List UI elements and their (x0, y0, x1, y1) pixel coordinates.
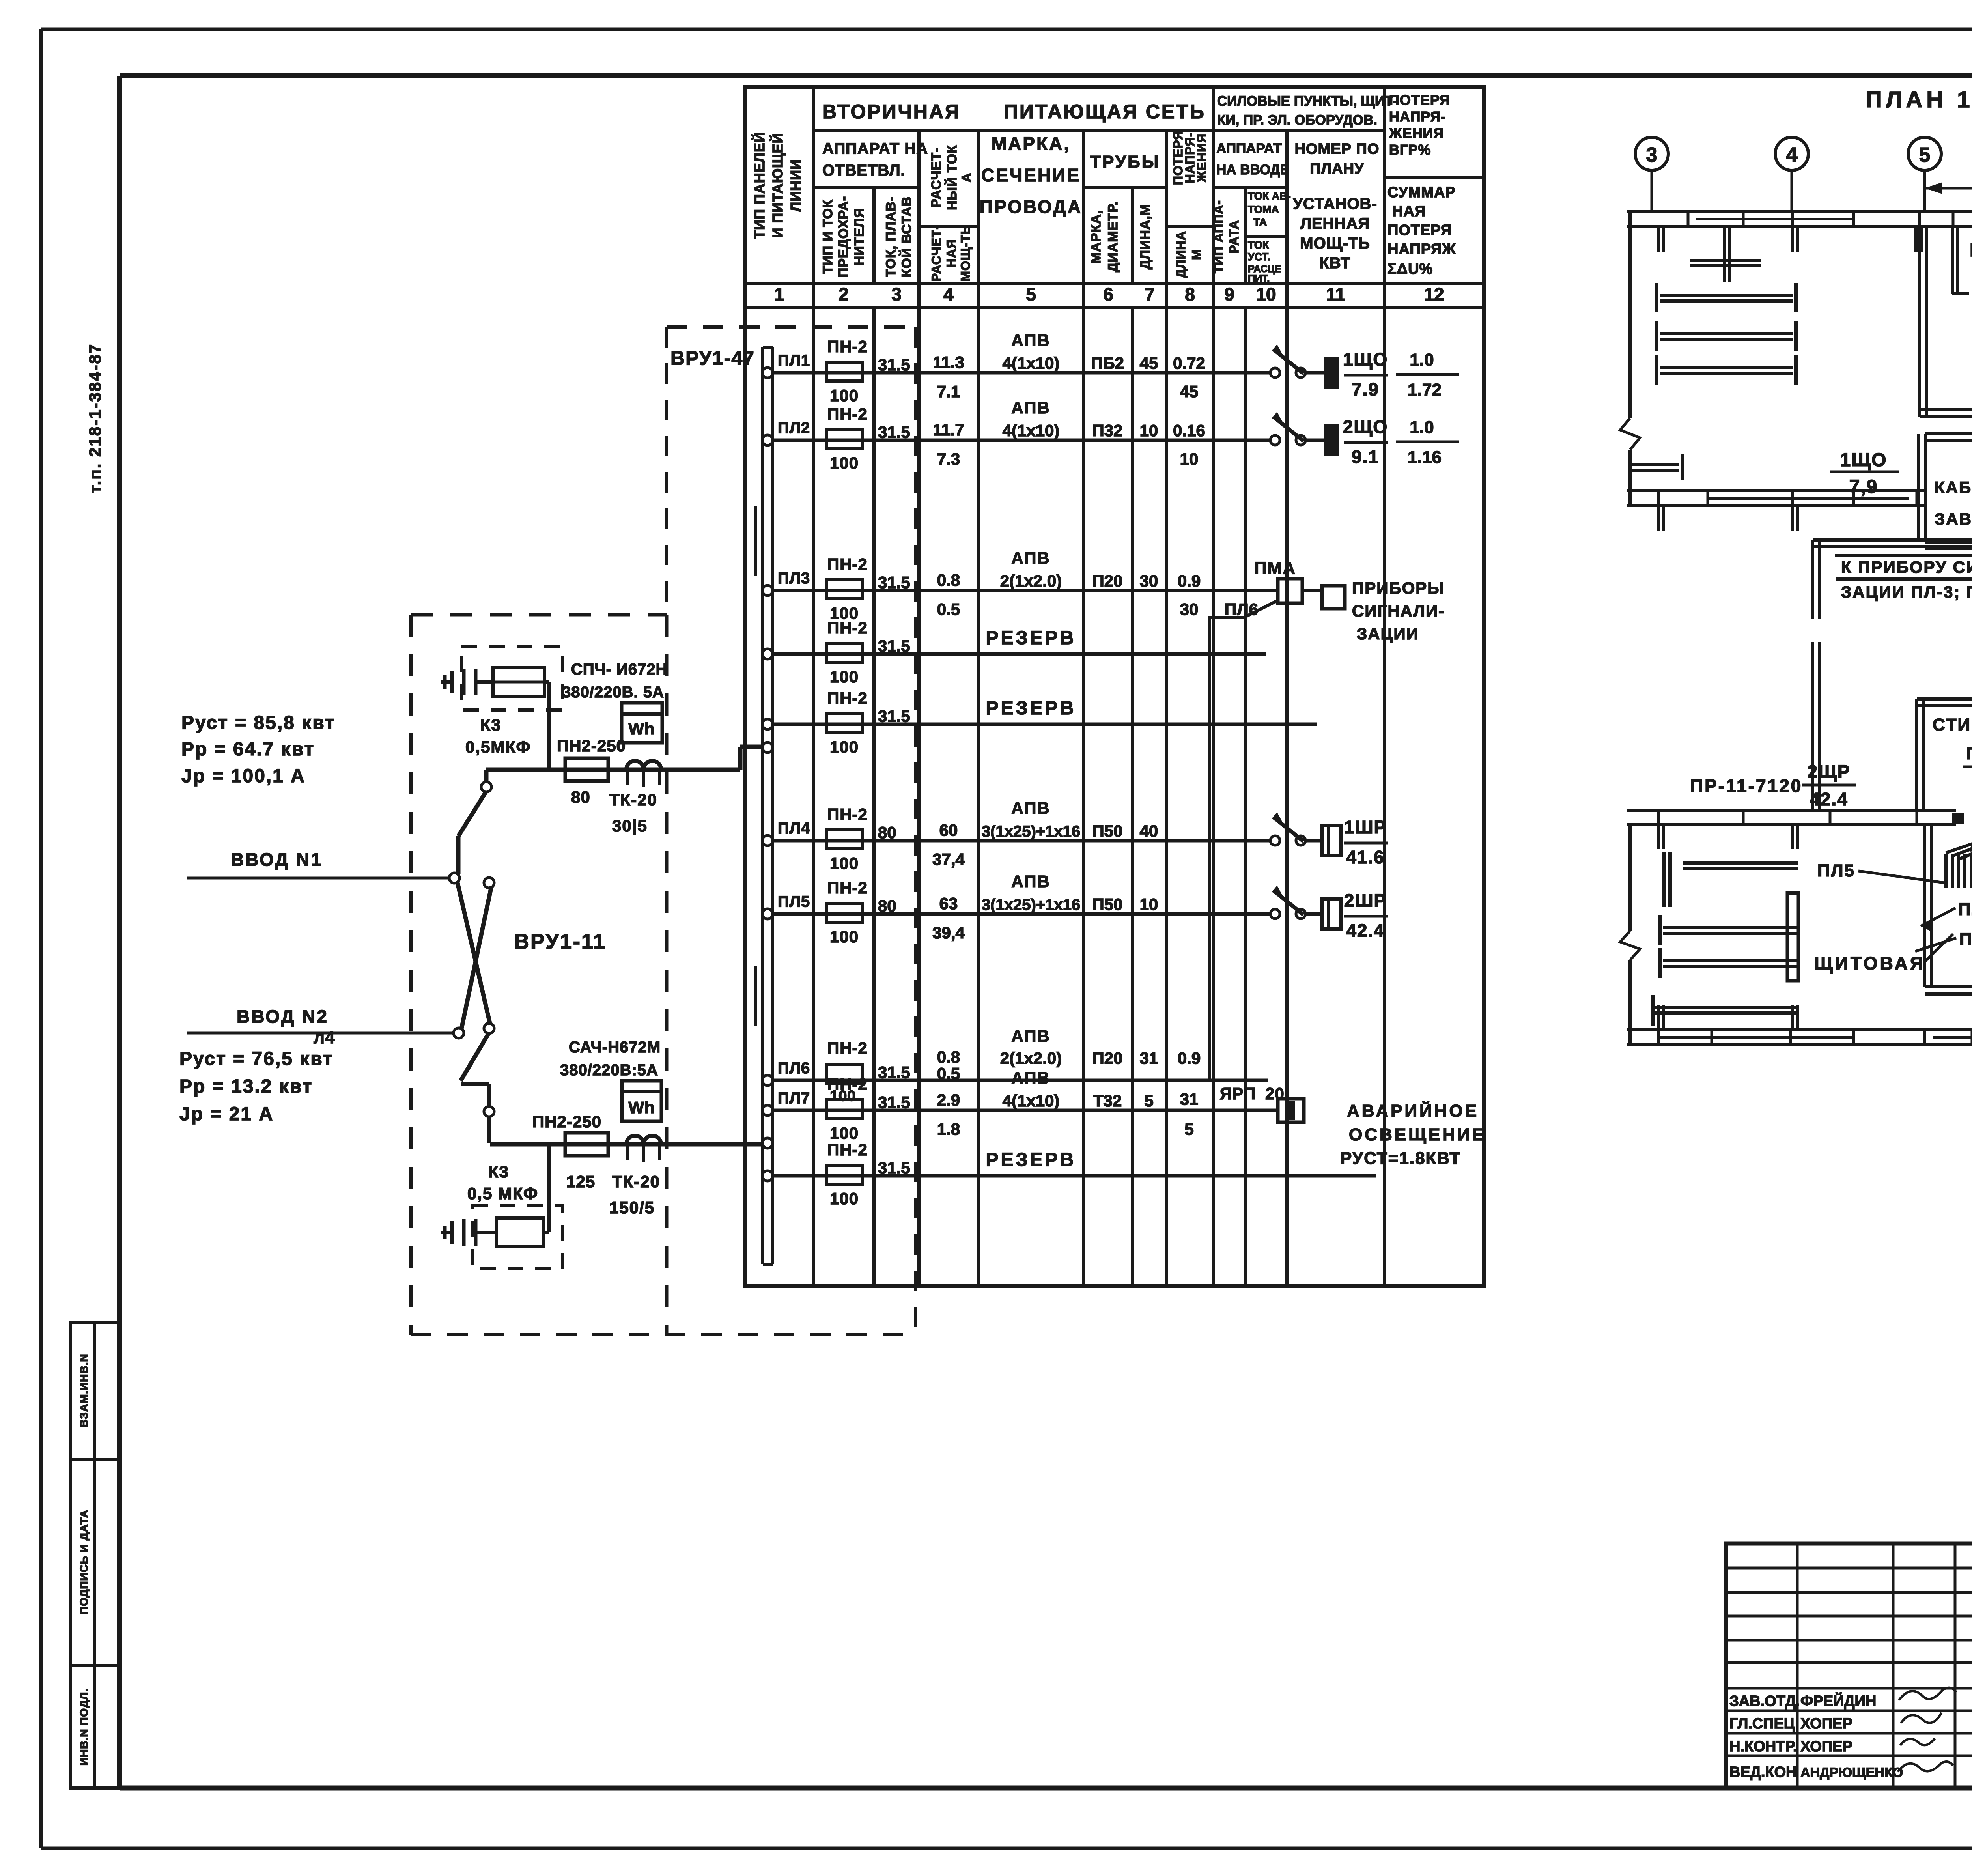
svg-text:ЛИНИИ: ЛИНИИ (788, 159, 804, 212)
label ПЛ3:ПЛ6 with leader (1963, 744, 1972, 767)
svg-text:ГЛ.СПЕЦ: ГЛ.СПЕЦ (1729, 1715, 1795, 1732)
svg-text:МОЩ-ТЬ: МОЩ-ТЬ (958, 225, 973, 281)
svg-text:4(1х10): 4(1х10) (1003, 1091, 1060, 1110)
svg-text:37,4: 37,4 (932, 850, 965, 869)
label 1ШР/41.6 (1344, 817, 1388, 867)
svg-text:Н.КОНТР.: Н.КОНТР. (1729, 1738, 1797, 1755)
wall bottom wing bottom band (1627, 1030, 1972, 1045)
svg-text:ДИАМЕТР.: ДИАМЕТР. (1106, 201, 1120, 272)
svg-text:100: 100 (830, 1124, 859, 1142)
svg-text:ПН-2: ПН-2 (827, 1075, 868, 1093)
svg-text:1ШР: 1ШР (1344, 817, 1387, 837)
svg-text:31.5: 31.5 (878, 707, 910, 725)
svg-text:3: 3 (891, 284, 902, 305)
label К3 0,5МКФ (upper) (465, 716, 531, 756)
svg-text:МАРКА,: МАРКА, (992, 133, 1070, 154)
svg-text:Т32: Т32 (1093, 1091, 1122, 1110)
node tap ПЛ7 on bus (762, 1105, 773, 1116)
svg-text:100: 100 (830, 738, 859, 756)
svg-text:ПЛ5: ПЛ5 (1817, 861, 1855, 880)
svg-text:100: 100 (830, 927, 859, 946)
wall top wing left edge with break (1620, 211, 1640, 506)
svg-text:ЯРП: ЯРП (1220, 1084, 1256, 1103)
resistor (lower K3) (496, 1144, 549, 1246)
svg-text:60: 60 (939, 821, 958, 839)
svg-text:ПЛ3:ПЛ6: ПЛ3:ПЛ6 (1966, 744, 1972, 763)
svg-text:ПЛ4: ПЛ4 (1958, 900, 1972, 919)
label ЩИТОВАЯ with leader (1814, 934, 1953, 974)
label АВАРИЙНОЕ ОСВЕЩЕНИЕ (1340, 1101, 1486, 1168)
svg-text:100: 100 (830, 454, 859, 472)
svg-text:АПВ: АПВ (1011, 331, 1050, 349)
svg-text:НОМЕР ПО: НОМЕР ПО (1295, 141, 1380, 157)
svg-text:ПРЕДОХРА-: ПРЕДОХРА- (836, 196, 851, 277)
header: ТРУБЫ (1090, 152, 1160, 172)
svg-text:т.п. 218-1-384-87: т.п. 218-1-384-87 (86, 343, 104, 493)
svg-text:ТОК, ПЛАВ-: ТОК, ПЛАВ- (883, 196, 898, 277)
wire interlock ПМА to ПЛ6 (1210, 600, 1278, 1080)
svg-text:7.3: 7.3 (937, 450, 960, 468)
svg-text:3(1х25)+1х16: 3(1х25)+1х16 (982, 823, 1080, 840)
wire feeder ПЛ1 (773, 371, 1271, 375)
switch QS (ПЛ1) (1270, 344, 1324, 377)
node label ПЛ3 (778, 570, 810, 587)
svg-text:ТК-20: ТК-20 (609, 790, 657, 809)
node label ПЛ4 (778, 820, 810, 837)
svg-text:НА ВВОДЕ: НА ВВОДЕ (1216, 162, 1289, 178)
svg-text:100: 100 (830, 1189, 859, 1208)
svg-text:ПН2-250: ПН2-250 (557, 736, 626, 755)
wire feeder ПЛ7 (773, 1109, 1278, 1112)
svg-text:10: 10 (1140, 895, 1158, 914)
svg-text:КУХНЯ: КУХНЯ (1970, 240, 1972, 261)
svg-text:ПЛАН 1 ЭТАЖА М 1:200: ПЛАН 1 ЭТАЖА М 1:200 (1866, 87, 1972, 112)
svg-text:СИГНАЛИ-: СИГНАЛИ- (1352, 602, 1445, 620)
svg-text:ДЛИНА,М: ДЛИНА,М (1138, 204, 1153, 269)
wall electrical room ЩИТОВАЯ (1925, 824, 1972, 994)
label 2ЩО/9.1 (1343, 417, 1388, 467)
svg-text:ПЛ2: ПЛ2 (778, 419, 810, 437)
fuse ПН2-250 125А (lower) (532, 1112, 608, 1191)
value труба П50 10 (ПЛ5) (1092, 895, 1158, 914)
svg-text:42.4: 42.4 (1810, 789, 1848, 809)
fuse ПН-2 100А (резерв) (827, 1140, 868, 1208)
svg-text:ТОК: ТОК (1248, 239, 1269, 251)
switch QS (ПЛ5) (1270, 886, 1324, 919)
svg-text:10: 10 (1256, 284, 1276, 305)
svg-text:5: 5 (1919, 144, 1931, 166)
contactor ПМА (ПЛ3) (1254, 559, 1322, 603)
svg-text:ПЛ5: ПЛ5 (778, 893, 810, 910)
wall bottom wing left edge with break (1620, 824, 1640, 1045)
svg-text:11.7: 11.7 (933, 420, 964, 439)
enclosure ВРУ1-11 dashed box (411, 615, 667, 1335)
svg-text:Руст = 76,5 квт: Руст = 76,5 квт (179, 1048, 334, 1069)
bus bar panel ВРУ1-47 (756, 347, 773, 1264)
svg-text:11: 11 (1326, 284, 1346, 305)
node axis 3 (1635, 137, 1668, 211)
value расчетный ток 11.7/7.3 (ПЛ2) (933, 420, 964, 468)
svg-text:Wh: Wh (628, 719, 655, 738)
fuse ПН-2 100А (ПЛ2) (827, 405, 868, 472)
label load summary input 1 (181, 712, 336, 787)
svg-text:ΣΔU%: ΣΔU% (1387, 261, 1433, 277)
svg-text:РУСТ=1.8КВТ: РУСТ=1.8КВТ (1340, 1149, 1461, 1168)
svg-text:ТА: ТА (1253, 216, 1267, 228)
left margin stamp table (70, 1322, 120, 1788)
svg-text:ЛЕННАЯ: ЛЕННАЯ (1300, 215, 1370, 232)
value марка провода АПВ 2(1х2.0) (ПЛ6) (1000, 1027, 1062, 1067)
svg-text:ПН-2: ПН-2 (827, 805, 868, 824)
svg-text:ПЛ6: ПЛ6 (778, 1059, 810, 1077)
svg-text:0.5: 0.5 (937, 600, 960, 618)
svg-text:ТИП ПАНЕЛЕЙ: ТИП ПАНЕЛЕЙ (751, 132, 768, 239)
svg-text:ВРУ1-47: ВРУ1-47 (670, 347, 755, 369)
svg-text:45: 45 (1180, 382, 1199, 401)
svg-text:ПЛ1: ПЛ1 (1959, 930, 1972, 949)
node tap ПЛ3 on bus (762, 585, 773, 596)
svg-text:НАЯ: НАЯ (944, 239, 958, 267)
fuse ПН-2 100А (ПЛ5) (827, 878, 868, 946)
svg-text:ТК-20: ТК-20 (612, 1172, 660, 1191)
current transformer ТК-20 30/5 (upper) (609, 761, 661, 835)
svg-text:6: 6 (1103, 284, 1113, 305)
node tap ПЛ2 on bus (762, 435, 773, 445)
value плавкая вставка 31.5 (резерв) (878, 707, 910, 725)
header col 7 rotated (1138, 204, 1153, 269)
svg-text:1ЩО: 1ЩО (1840, 450, 1887, 471)
svg-text:К3: К3 (480, 716, 501, 734)
label ПЛ5 with leader (1817, 861, 1944, 883)
svg-text:ПР-11-7120: ПР-11-7120 (1690, 775, 1802, 796)
wall partitions bottom wing left room (1653, 824, 1798, 1030)
fuse ПН-2 100А (ПЛ6) (827, 1039, 868, 1104)
panel marker (black) at 2ЩР wall (1952, 813, 1964, 824)
svg-text:31.5: 31.5 (878, 1063, 910, 1082)
label ВРУ1-11 (514, 930, 606, 953)
svg-text:39,4: 39,4 (932, 923, 965, 942)
wire riser lower (to fuse line 2) (461, 1033, 494, 1143)
svg-text:КИ, ПР. ЭЛ. ОБОРУДОВ.: КИ, ПР. ЭЛ. ОБОРУДОВ. (1217, 112, 1377, 128)
svg-text:40: 40 (1140, 822, 1158, 840)
wire feeder ПЛ6 (773, 1079, 1268, 1082)
svg-text:ОСВЕЩЕНИЕ: ОСВЕЩЕНИЕ (1349, 1125, 1486, 1144)
label ПЛ4 with leader (1921, 900, 1972, 931)
label КУХНЯ (1970, 240, 1972, 261)
svg-text:100: 100 (830, 667, 859, 686)
header: АППАРАТ НА ВВОДЕ (1216, 141, 1289, 178)
svg-text:10: 10 (1140, 421, 1158, 440)
svg-text:ИНВ.N ПОДЛ.: ИНВ.N ПОДЛ. (78, 1688, 90, 1766)
svg-text:П20: П20 (1092, 572, 1123, 590)
svg-text:125: 125 (566, 1172, 595, 1191)
svg-text:100: 100 (830, 386, 859, 405)
capacitor K3 0,5МКФ (lower) (472, 1205, 563, 1269)
svg-text:МАРКА,: МАРКА, (1089, 210, 1104, 263)
value расчетный ток 2.9/1.8 (ПЛ7) (937, 1091, 960, 1138)
switch QS (ПЛ4) (1270, 812, 1324, 845)
svg-text:КВТ: КВТ (1319, 254, 1350, 272)
wall partitions top wing left room (1630, 227, 1921, 531)
svg-text:АПВ: АПВ (1011, 799, 1050, 817)
svg-text:9: 9 (1224, 284, 1234, 305)
switch changeover X (crossed blades) (458, 878, 494, 1033)
title block revision table (1726, 1543, 1972, 1788)
svg-text:31.5: 31.5 (878, 423, 910, 441)
value потеря напряжения 1.0/1.16 (ПЛ2) (1396, 418, 1459, 467)
svg-text:ТИП АППА-: ТИП АППА- (1211, 200, 1225, 273)
wire feeder ПЛ3 (773, 589, 1278, 592)
header: АППАРАТ НА ОТВЕТВЛ. (822, 140, 928, 179)
wire feeder резерв (773, 1174, 1376, 1178)
node label ПЛ5 (778, 893, 810, 910)
svg-text:3: 3 (1646, 144, 1658, 166)
svg-text:ОТВЕТВЛ.: ОТВЕТВЛ. (822, 162, 906, 179)
svg-text:7.9: 7.9 (1352, 379, 1379, 400)
fuse ПН-2 100А (резерв) (827, 618, 868, 686)
title block frame (1726, 1543, 1972, 1788)
label РЕЗЕРВ (986, 628, 1076, 648)
header col 10 (1248, 190, 1291, 284)
value расчетный ток 11.3/7.1 (ПЛ1) (933, 353, 964, 401)
svg-text:30: 30 (1140, 572, 1158, 590)
svg-text:П32: П32 (1092, 421, 1123, 440)
node tap резерв on bus (762, 1171, 773, 1181)
header col 8 rotated (1171, 131, 1209, 278)
svg-text:ЖЕНИЯ: ЖЕНИЯ (1195, 133, 1209, 183)
value марка провода АПВ 4(1х10) (ПЛ1) (1003, 331, 1060, 372)
svg-text:31.5: 31.5 (878, 637, 910, 655)
svg-text:ФРЕЙДИН: ФРЕЙДИН (1800, 1692, 1876, 1710)
svg-text:12: 12 (1424, 284, 1444, 305)
label КАБИНЕТ-ЗАВЕДУЮЩ (1935, 478, 1972, 528)
svg-text:П20: П20 (1092, 1049, 1123, 1067)
header col 1 rotated (751, 132, 804, 239)
dimension 7200 between axes 5 and 6 (1925, 163, 1972, 194)
svg-text:САЧ-Н672М: САЧ-Н672М (569, 1039, 661, 1056)
node tap резерв on bus (762, 719, 773, 729)
header col 5: МАРКА СЕЧЕНИЕ ПРОВОДА (980, 133, 1082, 217)
svg-text:2.9: 2.9 (937, 1091, 960, 1109)
svg-text:ХОПЕР: ХОПЕР (1800, 1738, 1852, 1755)
svg-text:ПИТАЮЩАЯ СЕТЬ: ПИТАЮЩАЯ СЕТЬ (1004, 101, 1206, 123)
feeder table outer frame (745, 87, 1484, 1286)
fuse ПН-2 100А (ПЛ7) (827, 1075, 868, 1142)
svg-text:1.72: 1.72 (1408, 380, 1442, 400)
wall top wing bottom band left (1627, 491, 1925, 506)
panel 2ЩО (lighting board) (1324, 424, 1339, 456)
label 2ШР/42.4 (1344, 890, 1388, 941)
svg-text:31: 31 (1140, 1049, 1158, 1067)
svg-text:2ЩО: 2ЩО (1343, 417, 1388, 437)
label К3 0,5МКФ (lower) (467, 1162, 538, 1203)
wire upper feed line (486, 747, 762, 770)
svg-text:Рр = 13.2 квт: Рр = 13.2 квт (179, 1076, 313, 1097)
fuse ПН-2 100А (ПЛ4) (827, 805, 868, 873)
svg-text:АПВ: АПВ (1011, 1069, 1050, 1087)
svg-text:ВВОД N1: ВВОД N1 (231, 849, 323, 870)
svg-text:10: 10 (1180, 450, 1199, 468)
svg-text:П50: П50 (1092, 822, 1123, 840)
svg-text:М: М (1190, 249, 1204, 260)
svg-text:2ЩР: 2ЩР (1807, 761, 1850, 782)
svg-text:УСТАНОВ-: УСТАНОВ- (1293, 195, 1377, 213)
node label ПЛ6 (778, 1059, 810, 1077)
svg-text:42.4: 42.4 (1346, 920, 1385, 941)
svg-text:31.5: 31.5 (878, 355, 910, 374)
node feed tap 1 (from ВРУ1-11 upper) (762, 742, 773, 753)
svg-text:0,5 МКФ: 0,5 МКФ (467, 1184, 538, 1203)
header col 3 rotated (883, 196, 914, 277)
value труба Т32 5 (ПЛ7) (1093, 1091, 1194, 1138)
svg-text:СИЛОВЫЕ ПУНКТЫ, ЩИТ-: СИЛОВЫЕ ПУНКТЫ, ЩИТ- (1217, 93, 1398, 109)
value плавкая вставка 31.5 (ПЛ1) (878, 355, 910, 374)
svg-text:0.72: 0.72 (1173, 354, 1205, 372)
svg-text:ПН-2: ПН-2 (827, 1140, 868, 1159)
svg-text:4: 4 (1786, 144, 1798, 166)
svg-text:2: 2 (838, 284, 849, 305)
svg-text:ПОДПИСЬ И ДАТА: ПОДПИСЬ И ДАТА (78, 1510, 90, 1614)
svg-text:31.5: 31.5 (878, 573, 910, 592)
svg-text:4(1х10): 4(1х10) (1003, 421, 1060, 440)
node label ПЛ2 (778, 419, 810, 437)
label ВРУ1-47 (670, 347, 755, 369)
capacitor K3 0,5МКФ (upper) with discharge resistor (461, 647, 563, 710)
svg-text:0.9: 0.9 (1178, 572, 1201, 590)
svg-text:31.5: 31.5 (878, 1093, 910, 1112)
svg-text:А: А (959, 172, 974, 183)
svg-text:31: 31 (1180, 1090, 1199, 1108)
fuse ПН-2 100А (резерв) (827, 689, 868, 756)
svg-text:ПН-2: ПН-2 (827, 405, 868, 423)
svg-text:41.6: 41.6 (1346, 847, 1385, 867)
value марка провода АПВ 4(1х10) (ПЛ2) (1003, 398, 1060, 440)
svg-text:Jр = 21 А: Jр = 21 А (179, 1104, 274, 1125)
svg-text:80: 80 (878, 823, 896, 842)
title block signatures (1898, 1688, 1956, 1772)
label 1ЩО/7.9 (1343, 349, 1388, 400)
svg-text:ТОМА: ТОМА (1248, 204, 1279, 215)
node label ПЛ7 (778, 1089, 810, 1107)
node tap ПЛ4 on bus (762, 835, 773, 846)
svg-text:УСТ.: УСТ. (1248, 251, 1270, 263)
wire riser upper (to fuse line 1) (458, 770, 491, 874)
value плавкая вставка 31.5 (ПЛ6) (878, 1063, 910, 1082)
svg-text:ВЕД.КОН: ВЕД.КОН (1729, 1764, 1797, 1781)
svg-text:2(1х2.0): 2(1х2.0) (1000, 1049, 1062, 1067)
panel 1ЩО (lighting board) (1324, 357, 1339, 389)
svg-text:ЖЕНИЯ: ЖЕНИЯ (1389, 125, 1444, 141)
svg-text:ТРУБЫ: ТРУБЫ (1090, 152, 1160, 172)
svg-text:ПЛ6: ПЛ6 (1225, 600, 1259, 618)
node tap резерв on bus (762, 649, 773, 659)
svg-text:ЩИТОВАЯ: ЩИТОВАЯ (1814, 953, 1925, 974)
svg-text:80: 80 (878, 897, 896, 915)
svg-text:РАСЧЕТ-: РАСЧЕТ- (929, 225, 943, 282)
value расчетный ток 0.8/0.5 (ПЛ6) (937, 1048, 960, 1083)
value труба ПБ2 45 (ПЛ1) (1091, 354, 1205, 401)
svg-text:ВРУ1-11: ВРУ1-11 (514, 930, 606, 953)
box ЯРП 20 (ПЛ7) (1220, 1084, 1304, 1122)
svg-text:ПЛАНУ: ПЛАНУ (1310, 161, 1364, 177)
svg-text:ВЗАМ.ИНВ.N: ВЗАМ.ИНВ.N (78, 1353, 90, 1427)
header col 6 rotated (1089, 201, 1120, 272)
label РЕЗЕРВ (986, 698, 1076, 719)
header col 9 rotated (1211, 200, 1241, 273)
svg-text:Рр = 64.7 квт: Рр = 64.7 квт (181, 739, 315, 760)
svg-text:ПН-2: ПН-2 (827, 1039, 868, 1057)
svg-text:К3: К3 (488, 1162, 509, 1181)
svg-text:ТОК АВ-: ТОК АВ- (1248, 190, 1291, 202)
value труба П20 30 (ПЛ3) (1092, 572, 1201, 618)
svg-text:2(1х2.0): 2(1х2.0) (1000, 572, 1062, 590)
header col 4 rotated (929, 145, 974, 282)
value марка провода АПВ 3(1х25)+1х16 (ПЛ4) (982, 799, 1080, 840)
value труба П32 10 (ПЛ2) (1092, 421, 1205, 468)
svg-text:9.1: 9.1 (1352, 447, 1379, 467)
label ПРИБОРЫ СИГНАЛИЗАЦИИ (1352, 579, 1445, 643)
svg-text:РАСЧЕТ-: РАСЧЕТ- (929, 148, 944, 208)
svg-text:ПОТЕРЯ: ПОТЕРЯ (1387, 222, 1452, 239)
svg-text:МОЩ-ТЬ: МОЩ-ТЬ (1300, 235, 1370, 252)
svg-text:ПЛ4: ПЛ4 (778, 820, 810, 837)
svg-text:4(1х10): 4(1х10) (1003, 354, 1060, 372)
node label ПЛ1 (778, 352, 810, 369)
svg-text:45: 45 (1140, 354, 1158, 372)
wire lower feed line (490, 1142, 762, 1147)
svg-text:1: 1 (774, 284, 784, 305)
header col 11 (1293, 141, 1379, 272)
svg-text:1.0: 1.0 (1410, 350, 1434, 370)
svg-text:ПИТ.: ПИТ. (1248, 273, 1270, 284)
svg-text:И ПИТАЮЩЕЙ: И ПИТАЮЩЕЙ (769, 133, 786, 238)
svg-text:КАБИН ЕТ -: КАБИН ЕТ - (1935, 478, 1972, 497)
svg-text:НИТЕЛЯ: НИТЕЛЯ (852, 208, 867, 266)
header: ВТОРИЧНАЯ ПИТАЮЩАЯ СЕТЬ (822, 101, 1206, 123)
svg-text:4: 4 (943, 284, 954, 305)
svg-text:ПЛ1: ПЛ1 (778, 352, 810, 369)
feeder table header grid (745, 87, 1484, 1286)
svg-text:Jр = 100,1 А: Jр = 100,1 А (181, 766, 306, 787)
svg-text:380/220В. 5А: 380/220В. 5А (562, 684, 664, 701)
svg-text:К ПРИБОРУ СИГНАЛИ-: К ПРИБОРУ СИГНАЛИ- (1841, 558, 1972, 576)
wall kitchen (1920, 226, 1972, 417)
node tap ПЛ6 on bus (762, 1075, 773, 1086)
plan title ПЛАН 1 ЭТАЖА М 1:200 (1866, 87, 1972, 112)
svg-text:АНДРЮЩЕНКО: АНДРЮЩЕНКО (1800, 1765, 1903, 1780)
svg-text:НЫЙ ТОК: НЫЙ ТОК (944, 145, 960, 210)
svg-text:ВТОРИЧНАЯ: ВТОРИЧНАЯ (822, 101, 961, 123)
current transformer ТК-20 150/5 (lower) (609, 1136, 661, 1217)
enclosure ВРУ1-47 dashed boundary (411, 327, 917, 1336)
svg-text:ПН-2: ПН-2 (827, 618, 868, 637)
label ПЛ6 (interlock) (1225, 600, 1259, 618)
svg-text:5: 5 (1026, 284, 1036, 305)
svg-text:1.8: 1.8 (937, 1120, 960, 1138)
value плавкая вставка 31.5 (ПЛ7) (878, 1093, 910, 1112)
label СТИРАЛЬНАЯ (1933, 715, 1972, 734)
svg-text:ЗАЦИИ ПЛ-3; ПЛ-6: ЗАЦИИ ПЛ-3; ПЛ-6 (1841, 583, 1972, 601)
wire feeder резерв (773, 652, 1266, 656)
svg-text:Руст = 85,8 квт: Руст = 85,8 квт (181, 712, 336, 733)
capacitor plates (upper K3) (441, 669, 493, 695)
header col 12: ПОТЕРЯ НАПРЯЖЕНИЯ (1387, 92, 1456, 277)
svg-text:ЗАВ.ОТД.: ЗАВ.ОТД. (1729, 1693, 1800, 1710)
svg-text:НАЯ: НАЯ (1392, 203, 1426, 220)
wall bottom wing top band (1627, 811, 1972, 824)
svg-text:П50: П50 (1092, 895, 1123, 914)
svg-text:ВВОД N2: ВВОД N2 (237, 1006, 329, 1027)
